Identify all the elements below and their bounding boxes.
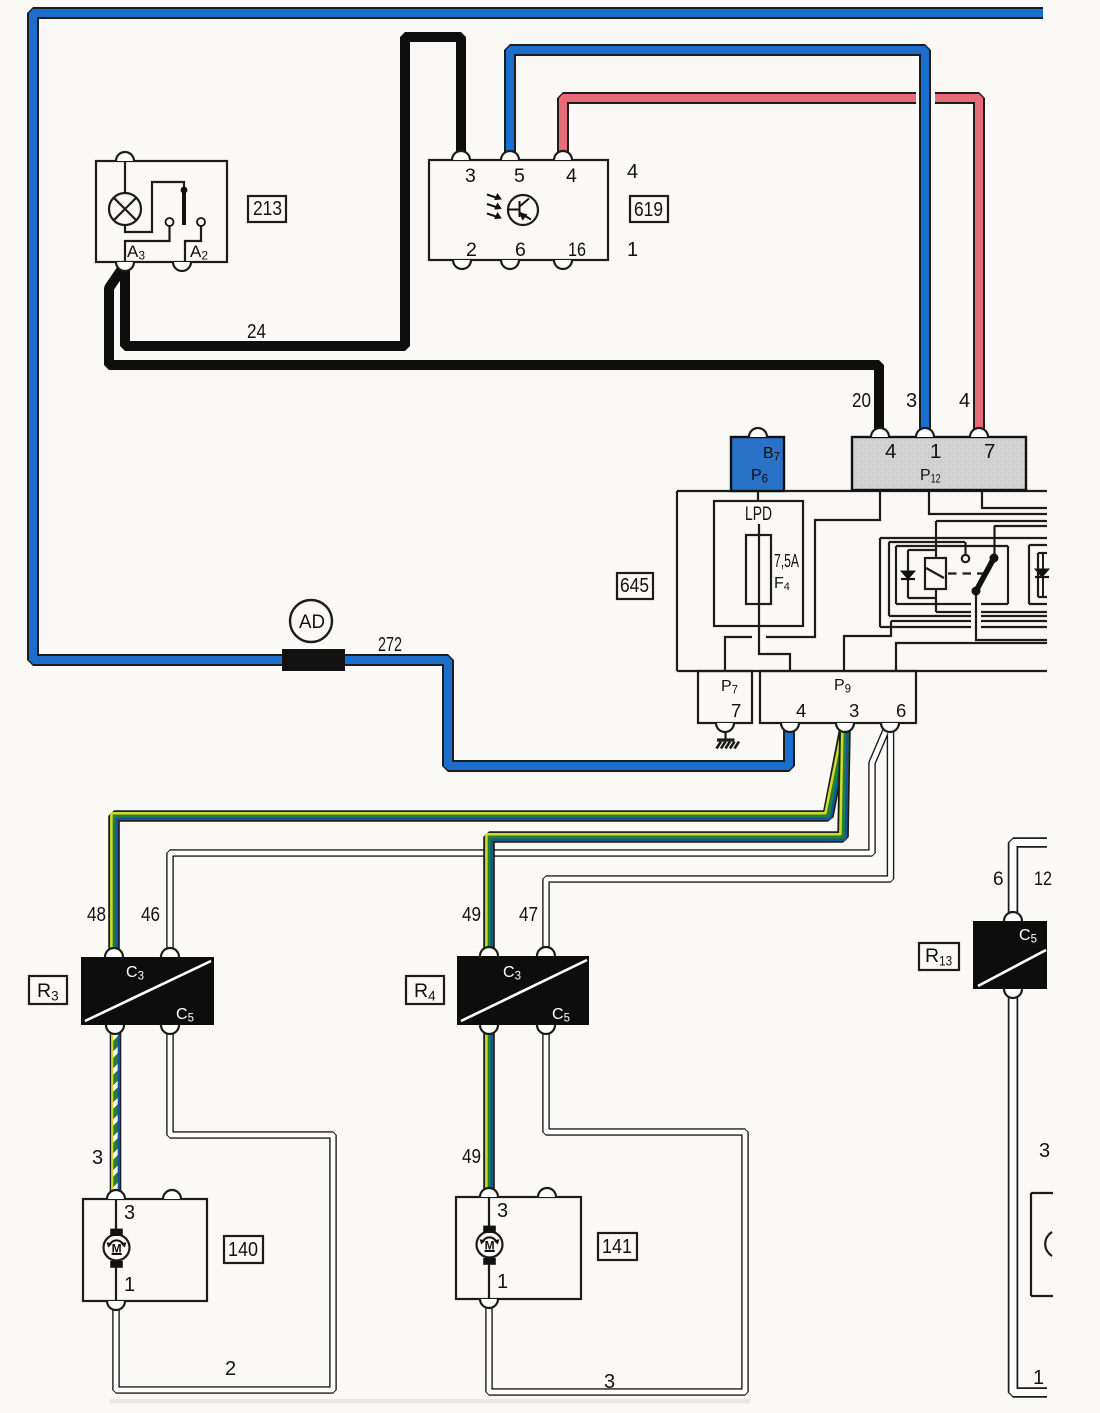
svg-text:140: 140 xyxy=(228,1239,258,1261)
svg-text:3: 3 xyxy=(906,390,917,412)
svg-text:1: 1 xyxy=(930,440,941,463)
svg-text:3: 3 xyxy=(465,165,476,187)
svg-text:47: 47 xyxy=(519,904,538,926)
svg-text:7: 7 xyxy=(731,700,741,721)
svg-text:6: 6 xyxy=(896,700,906,721)
svg-text:1: 1 xyxy=(124,1274,135,1296)
svg-text:7: 7 xyxy=(984,440,995,463)
svg-text:5: 5 xyxy=(514,165,525,187)
svg-text:1: 1 xyxy=(497,1271,508,1293)
svg-text:48: 48 xyxy=(87,904,106,926)
svg-text:4: 4 xyxy=(796,700,806,721)
svg-text:LPD: LPD xyxy=(745,503,772,525)
svg-text:46: 46 xyxy=(141,904,160,926)
svg-text:4: 4 xyxy=(959,390,970,412)
svg-text:2: 2 xyxy=(466,239,477,261)
svg-text:3: 3 xyxy=(1039,1140,1050,1162)
svg-text:4: 4 xyxy=(627,161,638,183)
svg-text:619: 619 xyxy=(634,199,663,221)
svg-text:16: 16 xyxy=(568,239,586,261)
svg-text:3: 3 xyxy=(849,700,859,721)
svg-text:141: 141 xyxy=(602,1236,632,1258)
svg-text:3: 3 xyxy=(92,1147,103,1169)
svg-text:2: 2 xyxy=(225,1358,236,1380)
svg-text:3: 3 xyxy=(604,1371,615,1393)
svg-text:272: 272 xyxy=(378,634,402,656)
svg-text:49: 49 xyxy=(462,1146,481,1168)
svg-text:1: 1 xyxy=(627,239,638,261)
svg-text:49: 49 xyxy=(462,904,481,926)
svg-text:6: 6 xyxy=(993,869,1004,890)
svg-text:AD: AD xyxy=(299,612,325,633)
svg-text:24: 24 xyxy=(247,321,266,343)
svg-text:645: 645 xyxy=(620,575,649,597)
svg-text:3: 3 xyxy=(124,1202,135,1224)
svg-text:1: 1 xyxy=(1033,1367,1044,1389)
svg-text:7,5A: 7,5A xyxy=(774,551,799,571)
svg-text:4: 4 xyxy=(885,440,896,463)
svg-text:6: 6 xyxy=(515,239,526,261)
svg-text:4: 4 xyxy=(566,165,577,187)
svg-text:213: 213 xyxy=(253,198,282,220)
svg-text:20: 20 xyxy=(852,390,871,412)
svg-text:3: 3 xyxy=(497,1200,508,1222)
svg-text:12: 12 xyxy=(1034,869,1052,890)
